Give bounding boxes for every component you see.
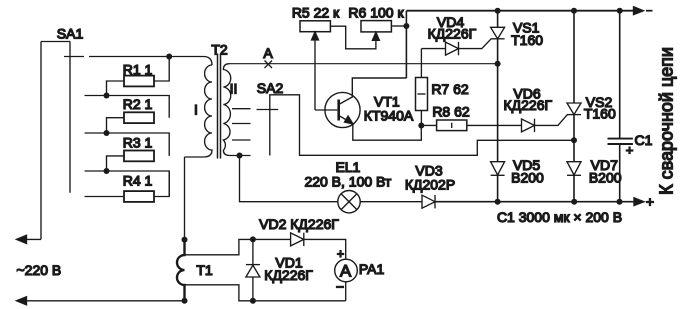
transistor VT1 xyxy=(325,92,360,127)
SA1 contact tick row1 xyxy=(64,56,84,58)
VT1 collector wire xyxy=(339,78,407,105)
svg-text:T1: T1 xyxy=(196,262,213,278)
resistor R2 xyxy=(124,112,154,123)
svg-text:C1: C1 xyxy=(635,132,653,148)
arrow top bus output xyxy=(634,7,644,15)
node T1 top xyxy=(182,237,188,243)
SA2 contact tick xyxy=(257,109,279,111)
svg-text:КД226Г: КД226Г xyxy=(428,25,477,41)
node C1 bottom xyxy=(617,199,623,205)
node row1/R1 xyxy=(166,54,172,60)
bottom bus wire xyxy=(435,201,643,203)
svg-text:220 В, 100 Вт: 220 В, 100 Вт xyxy=(304,174,391,190)
VS1 anode/cathode column xyxy=(497,11,499,162)
svg-text:+: + xyxy=(626,143,634,158)
svg-text:R1 1: R1 1 xyxy=(123,62,153,78)
resistor R3 xyxy=(124,151,154,162)
diode VD4 xyxy=(421,48,445,50)
svg-text:R3 1: R3 1 xyxy=(123,135,153,151)
svg-text:КД226Г: КД226Г xyxy=(504,97,553,113)
T2 core xyxy=(218,54,221,159)
wire row4 xyxy=(85,171,170,197)
T2 primary winding I xyxy=(185,65,213,157)
resistor R4 xyxy=(124,191,154,202)
node VS1 top bus xyxy=(495,8,501,14)
svg-text:T160: T160 xyxy=(511,32,543,48)
wire row2 xyxy=(85,96,170,118)
svg-text:C1 3000 мк × 200 В: C1 3000 мк × 200 В xyxy=(497,209,622,225)
svg-text:SA1: SA1 xyxy=(57,26,84,42)
wire ~220V terminal 1 xyxy=(17,238,41,240)
svg-text:+: + xyxy=(646,194,654,210)
svg-text:~220 В: ~220 В xyxy=(17,262,62,278)
R5 wiper to VT1 base xyxy=(314,36,316,110)
svg-text:R6 100 к: R6 100 к xyxy=(348,5,404,21)
node VD5 bottom xyxy=(495,199,501,205)
arrow terminal ~220V line 2 xyxy=(17,297,27,305)
diode VD5 xyxy=(491,162,505,175)
wire T2 primary bottom to T1 xyxy=(184,157,186,240)
node VS2 cathode / SA2 wire xyxy=(571,137,577,143)
wire R6 node vertical xyxy=(405,11,407,78)
node VD7 bottom xyxy=(571,199,577,205)
wire bottom ~220V terminal 2 xyxy=(17,300,185,302)
node output column top xyxy=(617,8,623,14)
svg-text:II: II xyxy=(230,81,238,97)
svg-text:EL1: EL1 xyxy=(335,159,360,175)
R6 right lead xyxy=(391,25,406,27)
wire row3 xyxy=(85,133,170,156)
T2 secondary tap stubs xyxy=(232,109,251,140)
svg-text:В200: В200 xyxy=(589,170,622,186)
arrow terminal ~220V line 1 xyxy=(17,235,27,243)
resistor R1 xyxy=(124,76,154,87)
svg-text:A: A xyxy=(263,45,273,61)
svg-text:PA1: PA1 xyxy=(359,261,385,277)
resistor R7 xyxy=(416,78,428,111)
thyristor VS1 xyxy=(491,27,505,39)
top bus wire xyxy=(406,10,642,12)
VT1 emitter wire xyxy=(339,116,351,123)
node A wire xyxy=(230,63,498,65)
T2 secondary winding II xyxy=(223,64,250,156)
svg-text:SA2: SA2 xyxy=(257,80,284,96)
point A mark xyxy=(265,61,273,69)
svg-text:R8 62: R8 62 xyxy=(432,104,470,120)
svg-text:R2 1: R2 1 xyxy=(123,96,153,112)
lamp EL1 xyxy=(338,191,360,213)
wire T1 secondary bottom lead xyxy=(185,285,346,301)
R5 right lead to R6 wiper xyxy=(330,26,376,49)
svg-text:R4 1: R4 1 xyxy=(123,173,153,189)
diode VD1 xyxy=(252,239,254,300)
svg-text:В200: В200 xyxy=(511,170,544,186)
switch SA1 xyxy=(41,42,70,240)
svg-text:КТ940А: КТ940А xyxy=(364,107,414,123)
svg-text:R5 22 к: R5 22 к xyxy=(292,5,340,21)
capacitor C1 xyxy=(608,139,633,144)
svg-text:КД226Г: КД226Г xyxy=(264,267,313,283)
node row4 xyxy=(104,168,110,174)
node row3 xyxy=(104,130,110,136)
wire row1 SA1 to T2 xyxy=(89,57,212,66)
node R7/R8/emitter xyxy=(418,123,424,129)
wire T1 secondary top lead xyxy=(185,239,253,254)
thyristor VS2 xyxy=(567,103,581,115)
node row2 xyxy=(104,93,110,99)
diode VD7 xyxy=(567,162,581,175)
svg-text:VD2 КД226Г: VD2 КД226Г xyxy=(259,216,339,232)
svg-text:R7 62: R7 62 xyxy=(431,81,469,97)
node T2 secondary bottom xyxy=(237,153,243,159)
svg-text:I: I xyxy=(194,102,198,118)
svg-text:T2: T2 xyxy=(211,42,228,58)
resistor R8 xyxy=(437,120,467,131)
wire EL1 branch xyxy=(240,156,338,202)
wire row5 xyxy=(85,196,125,198)
svg-text:+: + xyxy=(337,247,344,261)
ammeter PA1 xyxy=(335,259,358,282)
node VS2 top bus xyxy=(571,8,577,14)
potentiometer R5 xyxy=(300,21,330,32)
svg-text:T160: T160 xyxy=(584,106,616,122)
diode VD3 xyxy=(422,195,435,208)
node VD1 top xyxy=(250,236,256,242)
svg-text:КД202Р: КД202Р xyxy=(405,177,455,193)
transformer T1 primary line xyxy=(177,240,185,301)
output column / C1 xyxy=(619,11,621,202)
node VD1 bottom xyxy=(250,298,256,304)
svg-text:К сварочной цепи: К сварочной цепи xyxy=(657,47,677,195)
switch SA2 xyxy=(270,95,574,156)
VS2 column xyxy=(573,11,575,162)
svg-text:−: − xyxy=(336,279,344,295)
diode VD6 xyxy=(522,119,535,132)
VT1 base wire xyxy=(315,109,337,111)
arrow bottom bus output xyxy=(634,198,644,206)
potentiometer R6 xyxy=(361,21,391,32)
wire EL1 to VD3 xyxy=(360,201,422,203)
minus sign top output xyxy=(646,10,653,12)
node VS1 cathode / A wire xyxy=(495,61,501,67)
node R6/collector/bus xyxy=(403,23,409,29)
diode VD2 xyxy=(253,238,291,240)
node T1 bottom xyxy=(182,298,188,304)
